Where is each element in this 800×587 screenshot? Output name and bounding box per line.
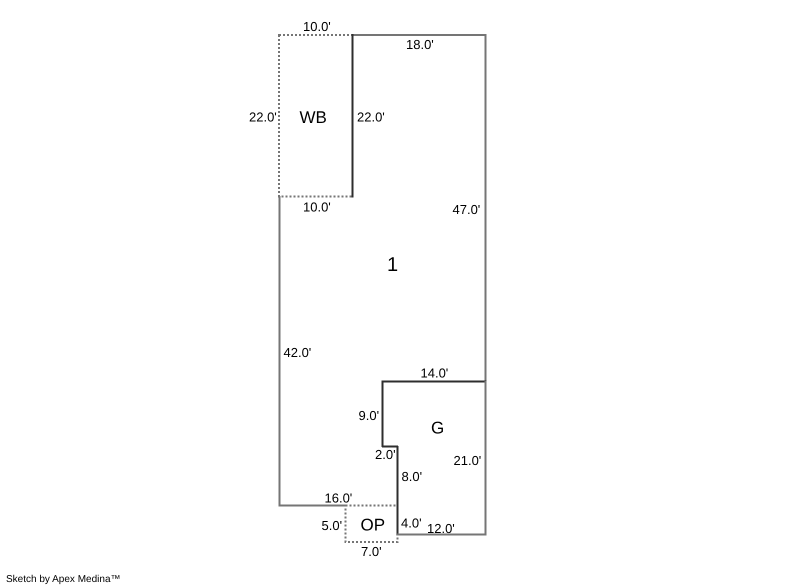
region 1 left wall 42.0' — [279, 196, 281, 507]
svg-text:2.0': 2.0' — [375, 447, 396, 462]
step wall 2.0' — [382, 446, 398, 448]
OP dashed outline (open porch) — [346, 506, 398, 543]
svg-text:18.0': 18.0' — [406, 37, 434, 52]
wall 8.0' — [397, 446, 399, 506]
svg-text:9.0': 9.0' — [359, 408, 380, 423]
garage G bottom wall 12.0' — [397, 534, 487, 536]
svg-text:42.0': 42.0' — [284, 345, 312, 360]
svg-text:16.0': 16.0' — [325, 491, 353, 506]
svg-text:4.0': 4.0' — [401, 516, 422, 531]
svg-text:22.0': 22.0' — [249, 110, 277, 125]
svg-text:7.0': 7.0' — [361, 544, 382, 559]
garage G right wall 21.0' — [485, 381, 487, 536]
wall 4.0' (OP right / G lower-left) — [397, 505, 399, 536]
garage G left wall 9.0' — [382, 381, 384, 447]
svg-text:21.0': 21.0' — [454, 453, 482, 468]
svg-text:47.0': 47.0' — [453, 202, 481, 217]
WB right wall / region 1 upper-left wall 22.0' — [352, 34, 354, 198]
region 1 right wall 47.0' — [485, 34, 487, 382]
WB dashed outline (wood deck/balcony) — [279, 35, 353, 197]
region 1 top wall 18.0' — [352, 34, 487, 36]
svg-text:10.0': 10.0' — [303, 19, 331, 34]
svg-text:WB: WB — [300, 108, 327, 127]
svg-text:G: G — [431, 419, 444, 438]
svg-text:10.0': 10.0' — [303, 200, 331, 215]
svg-text:OP: OP — [361, 516, 386, 535]
svg-text:Sketch by Apex Medina™: Sketch by Apex Medina™ — [6, 574, 121, 585]
svg-text:14.0': 14.0' — [421, 366, 449, 381]
svg-text:1: 1 — [387, 254, 398, 276]
region 1 bottom wall 16.0' solid part — [279, 505, 347, 507]
svg-text:5.0': 5.0' — [322, 518, 343, 533]
svg-text:22.0': 22.0' — [357, 110, 385, 125]
svg-text:8.0': 8.0' — [402, 469, 423, 484]
garage G top wall 14.0' — [382, 381, 487, 383]
svg-text:12.0': 12.0' — [427, 521, 455, 536]
